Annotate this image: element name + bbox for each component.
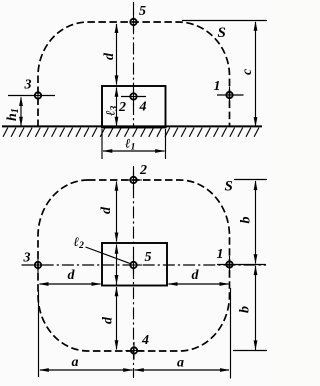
svg-text:d: d (101, 316, 116, 324)
extension/arm through point 1 (217, 264, 266, 266)
dimension c (255, 22, 257, 126)
dimension d bottom (plan) (116, 287, 118, 350)
svg-text:d: d (192, 268, 200, 283)
extension line a right (230, 288, 232, 379)
svg-text:3: 3 (24, 78, 32, 93)
svg-text:a: a (72, 355, 79, 370)
dimension l3 (building height) (116, 88, 118, 127)
vertical center line through points 5,2,4 (133, 2, 135, 127)
dimension l1 (103, 150, 165, 152)
zone boundary (dashed rounded rectangle) (38, 180, 230, 351)
dimension a left (40, 369, 133, 371)
building rectangle (plan) (102, 243, 167, 286)
extension line top right for c (182, 20, 267, 22)
dimension d left (plan) (40, 283, 101, 285)
svg-text:3: 3 (23, 251, 31, 266)
point 3 (left rod) (37, 87, 39, 105)
svg-text:5: 5 (139, 4, 146, 19)
protection zone boundary S (dashed dome) (38, 22, 230, 127)
svg-text:d: d (99, 206, 114, 214)
crosshair arm point 2/4 (121, 96, 146, 98)
point 2 (plan top) (125, 172, 142, 190)
svg-text:2: 2 (139, 163, 147, 178)
vertical center line through 2,5,4 (133, 166, 135, 378)
point 3 (plan left) (30, 257, 47, 275)
dimension d top (plan) (116, 182, 118, 242)
point 5 (plan center) (125, 257, 142, 275)
svg-text:a: a (177, 356, 184, 371)
extension lines for l1 (102, 129, 166, 159)
inner dimension l2 height (116, 245, 118, 285)
svg-text:1: 1 (217, 247, 224, 262)
svg-text:4: 4 (141, 333, 149, 348)
horizontal center line through 3,5,1 (22, 264, 267, 266)
building rectangle (elevation) (102, 86, 166, 128)
dimension h1 (20, 98, 22, 127)
leader line l2 (86, 247, 131, 264)
crosshair arm point 1 (217, 94, 244, 96)
svg-text:S: S (218, 25, 226, 41)
extension line b top (234, 179, 267, 181)
dimension b upper (255, 181, 257, 264)
dimension d right (plan) (169, 283, 229, 285)
point 1 (right rod) (229, 87, 231, 105)
crosshair arm point 3 (8, 95, 55, 97)
dimension b lower (255, 266, 257, 350)
dimension a right (135, 369, 230, 371)
svg-text:2: 2 (118, 100, 126, 115)
point 2/4 (inside building) (133, 88, 135, 106)
svg-text:b: b (238, 306, 253, 313)
dimension d (top figure) (116, 24, 118, 85)
point 5 (top rod) (133, 13, 135, 31)
ground line (2, 125, 262, 127)
extension line a left (38, 290, 40, 377)
svg-text:b: b (239, 217, 254, 224)
extension line b bottom (233, 350, 267, 352)
point 1 (plan right) (229, 256, 231, 274)
svg-text:S: S (225, 179, 233, 195)
svg-text:d: d (102, 52, 117, 60)
svg-text:1: 1 (214, 79, 221, 94)
svg-text:4: 4 (139, 100, 147, 115)
ground hatching (3, 128, 259, 137)
point 4 (plan bottom) (126, 342, 143, 360)
svg-text:d: d (68, 268, 76, 283)
svg-text:5: 5 (145, 250, 152, 265)
svg-text:c: c (240, 68, 255, 75)
